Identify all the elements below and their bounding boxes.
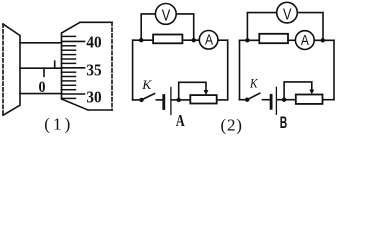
thimble bottom edge <box>88 109 112 111</box>
junction dot node2 A <box>192 38 196 42</box>
switch K lever B <box>247 93 260 100</box>
voltmeter circle B <box>277 2 298 23</box>
thimble long tick 40 <box>62 40 85 42</box>
rheostat wiper loop A <box>179 82 206 100</box>
wire top B: corner to resistor <box>240 39 260 41</box>
switch dot B <box>245 98 249 102</box>
svg-text:A: A <box>176 111 186 130</box>
wire switch to battery A <box>156 99 162 101</box>
switch dot A <box>139 98 143 102</box>
svg-text:V: V <box>162 8 171 25</box>
wire resistor to ammeter B <box>288 39 296 41</box>
wire resistor to ammeter A <box>182 39 199 41</box>
ammeter circle B <box>295 31 314 50</box>
battery A negative plate (short thick) <box>162 96 165 109</box>
wire battery to node B <box>277 99 284 101</box>
micrometer frame dashed left edge <box>2 24 4 115</box>
junction dot node3 A <box>177 98 181 102</box>
junction dot node2 B <box>321 38 325 42</box>
thimble dashed right edge <box>111 22 113 110</box>
rheostat wiper loop B <box>284 82 312 100</box>
voltmeter right lead B <box>297 13 323 41</box>
svg-text:K: K <box>141 77 152 92</box>
wire left vertical A <box>132 40 134 100</box>
micrometer frame <box>3 24 20 115</box>
wire ammeter to right corner B <box>314 39 334 41</box>
svg-text:(1): (1) <box>44 115 70 134</box>
rheostat exit wire B <box>323 99 335 101</box>
wire bottom left A <box>133 99 142 101</box>
rheostat wiper arrowhead A <box>204 90 209 95</box>
resistor R box A <box>153 35 182 44</box>
resistor R box B <box>259 34 288 43</box>
switch K lever A <box>142 94 155 100</box>
micrometer datum line <box>20 67 62 69</box>
wire right vertical B <box>333 40 335 99</box>
svg-text:35: 35 <box>86 61 101 80</box>
junction dot node1 A <box>139 38 143 42</box>
voltmeter right lead A <box>176 14 194 40</box>
voltmeter circle A <box>155 4 176 25</box>
junction dot node1 B <box>245 38 249 42</box>
svg-text:0: 0 <box>39 79 46 96</box>
rheostat box B <box>296 95 323 104</box>
micrometer opening bottom line <box>20 93 62 95</box>
rheostat wiper arrowhead B <box>309 90 314 95</box>
wire node to rheostat A <box>179 99 191 101</box>
svg-text:K: K <box>249 76 258 90</box>
thimble long tick 35 <box>62 67 85 69</box>
rheostat exit wire A <box>217 99 228 101</box>
wire top A: corner to resistor <box>133 39 154 41</box>
svg-text:(2): (2) <box>220 116 242 135</box>
main scale zero tick below datum <box>43 68 45 76</box>
main scale tick above datum <box>54 61 56 68</box>
micrometer opening top line <box>20 42 62 44</box>
junction dot node3 B <box>282 98 286 102</box>
wire node to rheostat B <box>284 99 296 101</box>
wire left vertical B <box>239 40 241 99</box>
battery B negative plate (short thick) <box>270 95 273 108</box>
svg-text:40: 40 <box>86 33 101 52</box>
svg-text:A: A <box>301 32 309 49</box>
svg-text:30: 30 <box>86 88 101 107</box>
thimble outline <box>62 22 89 110</box>
rheostat box A <box>190 95 216 103</box>
thimble short ticks <box>62 36 76 98</box>
wire battery to node A <box>172 99 179 101</box>
ammeter circle A <box>199 31 218 50</box>
thimble top edge <box>80 21 112 23</box>
wire ammeter to right corner A <box>218 39 228 41</box>
thimble long tick 30 <box>62 93 85 95</box>
wire right vertical A <box>227 40 229 100</box>
voltmeter left lead B <box>247 13 276 41</box>
wire switch to battery B <box>263 99 270 101</box>
svg-text:A: A <box>205 32 213 49</box>
battery B positive plate (long thin) <box>275 87 277 114</box>
battery A positive plate (long thin) <box>170 88 172 115</box>
voltmeter left lead A <box>141 14 155 40</box>
wire bottom left B <box>240 99 248 101</box>
svg-text:B: B <box>280 113 288 132</box>
svg-text:V: V <box>283 6 292 23</box>
